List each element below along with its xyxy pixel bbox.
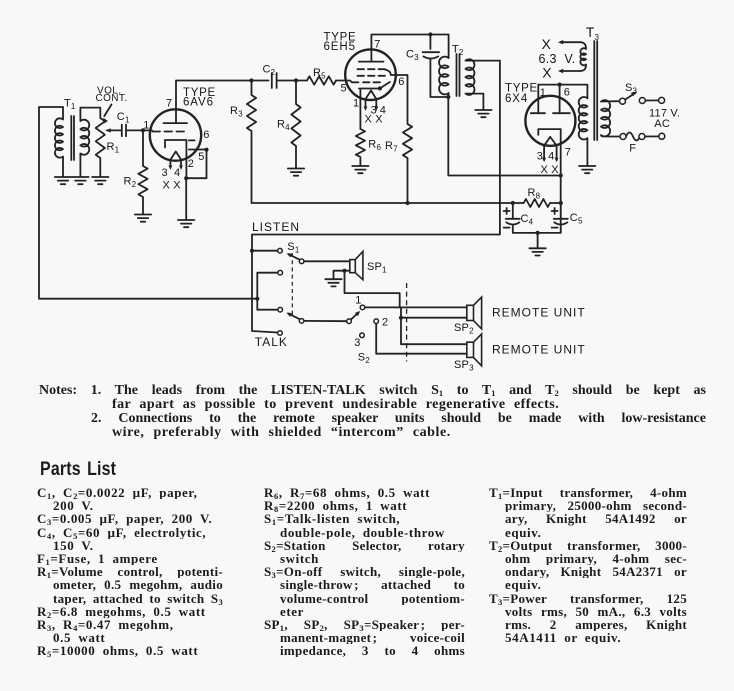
svg-text:4: 4 [548,150,554,162]
svg-text:C4: C4 [521,213,534,227]
svg-text:1: 1 [540,87,546,99]
svg-text:2: 2 [188,158,194,170]
svg-text:X: X [542,36,552,52]
svg-text:4: 4 [174,167,180,179]
svg-text:R1: R1 [107,141,120,155]
svg-text:6.3 V.: 6.3 V. [539,52,576,66]
svg-text:C1: C1 [117,111,130,125]
svg-text:R6: R6 [368,138,381,152]
svg-text:1: 1 [353,98,359,110]
svg-text:T1: T1 [64,98,76,112]
svg-text:1: 1 [143,120,149,132]
svg-text:6X4: 6X4 [505,93,528,105]
svg-text:T3: T3 [586,25,599,42]
svg-text:2: 2 [382,316,388,328]
svg-text:X: X [542,64,552,80]
svg-text:X X: X X [163,179,182,191]
svg-text:R2: R2 [124,176,137,190]
svg-text:6: 6 [398,76,404,88]
svg-text:3: 3 [354,337,360,349]
svg-text:3: 3 [537,150,543,162]
svg-text:SP2: SP2 [454,322,474,336]
svg-text:F: F [629,143,636,155]
svg-text:R5: R5 [313,67,326,81]
svg-text:6EH5: 6EH5 [324,41,356,53]
svg-text:6AV6: 6AV6 [183,96,214,108]
svg-text:TALK: TALK [255,335,288,349]
svg-text:6: 6 [203,129,209,141]
svg-text:5: 5 [198,151,204,163]
svg-text:LISTEN: LISTEN [252,220,300,234]
svg-text:R8: R8 [528,187,541,201]
svg-text:7: 7 [565,146,571,158]
svg-text:S3: S3 [625,82,638,96]
svg-text:R4: R4 [277,119,290,133]
svg-text:1: 1 [355,295,361,307]
svg-text:REMOTE UNIT: REMOTE UNIT [492,305,586,319]
svg-text:SP1: SP1 [367,261,387,275]
svg-text:C3: C3 [406,49,419,63]
svg-text:C5: C5 [570,212,583,226]
svg-text:R7: R7 [385,140,398,154]
svg-text:REMOTE UNIT: REMOTE UNIT [492,342,586,356]
svg-text:7: 7 [374,38,380,50]
svg-text:SP3: SP3 [454,359,474,373]
svg-text:C2: C2 [263,64,276,78]
svg-text:CONT.: CONT. [96,93,128,104]
svg-text:S1: S1 [287,241,300,255]
svg-text:S2: S2 [358,351,371,365]
svg-text:X X: X X [365,114,384,126]
svg-text:T2: T2 [452,44,464,58]
svg-text:R3: R3 [230,105,243,119]
svg-text:X X: X X [541,164,560,176]
svg-text:7: 7 [166,98,172,110]
svg-text:6: 6 [564,86,570,98]
svg-text:5: 5 [341,82,347,94]
svg-text:AC: AC [654,118,670,130]
svg-text:3: 3 [162,167,168,179]
